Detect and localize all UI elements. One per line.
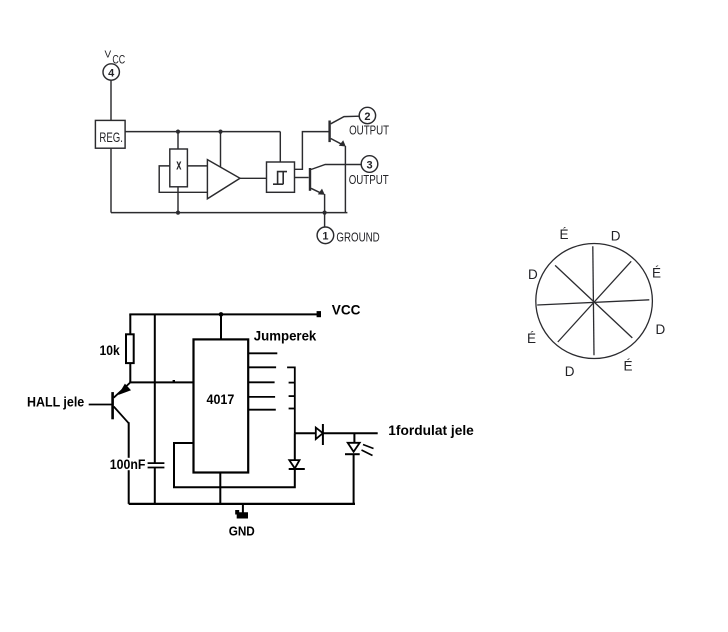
svg-text:4017: 4017 xyxy=(207,391,235,407)
junction xyxy=(176,130,180,134)
junction bump xyxy=(173,380,175,382)
svg-text:4: 4 xyxy=(108,68,115,80)
svg-text:GND: GND xyxy=(229,523,255,538)
junction xyxy=(218,130,222,134)
svg-text:VCC: VCC xyxy=(332,302,361,318)
wire REG down left side xyxy=(110,148,112,212)
op-amp U1 xyxy=(207,160,240,199)
svg-text:D: D xyxy=(656,322,666,337)
jumper tick 3 xyxy=(289,408,295,410)
wire jumper common down xyxy=(294,433,296,460)
pin out 2 xyxy=(248,366,276,368)
transistor Q3 lower (output 3) xyxy=(309,168,311,191)
pin out 4 xyxy=(248,396,275,398)
wire hall loop xyxy=(159,166,207,192)
VCC terminal square xyxy=(317,311,321,317)
svg-text:CC: CC xyxy=(112,55,125,67)
svg-text:D: D xyxy=(565,364,575,379)
schmitt hysteresis symbol xyxy=(273,172,287,185)
svg-text:GROUND: GROUND xyxy=(336,230,379,245)
svg-text:100nF: 100nF xyxy=(110,456,146,472)
labels of bottom circuit xyxy=(27,302,474,539)
wire op-amp output xyxy=(240,177,267,179)
wire LED cathode down xyxy=(353,454,355,504)
wire cap to ground rail xyxy=(154,468,156,504)
IC 4017 xyxy=(194,339,249,472)
magnet circle xyxy=(536,244,653,359)
wire 4017 top pin xyxy=(220,314,222,339)
jumper tick 1 xyxy=(289,382,295,384)
regulator REG xyxy=(95,120,125,148)
wire lower emitter to ground node xyxy=(324,194,326,227)
wire rail to op-amp top xyxy=(220,132,222,168)
pin out 5 xyxy=(248,409,276,411)
LED D3 xyxy=(348,443,360,452)
jumper tick 2 xyxy=(289,395,295,397)
svg-text:V: V xyxy=(105,49,112,60)
pin out 3 xyxy=(248,381,274,383)
ground rail xyxy=(129,503,355,505)
ground symbol xyxy=(242,504,244,514)
ground rail xyxy=(111,212,347,214)
wire schmitt to lower transistor base xyxy=(295,177,309,179)
svg-text:É: É xyxy=(527,331,536,346)
svg-text:x: x xyxy=(176,157,182,174)
transistor Q1 emitter xyxy=(114,383,130,398)
svg-text:D: D xyxy=(611,228,621,243)
diode D1 (series output) xyxy=(316,428,323,440)
svg-text:REG.: REG. xyxy=(99,129,123,145)
svg-text:D: D xyxy=(528,267,538,282)
wire rail to X box xyxy=(177,132,179,149)
transistor Q2 upper (output 2) xyxy=(328,121,330,143)
transistor Q1 base bar xyxy=(111,392,114,419)
wire VCC terminal to REG xyxy=(110,80,112,120)
wire rail to resistor xyxy=(129,314,131,334)
svg-text:OUTPUT: OUTPUT xyxy=(349,172,389,187)
diode D2 (reset) xyxy=(289,460,299,468)
wire VCC rail xyxy=(129,313,317,315)
spoke NE-SW xyxy=(558,261,631,342)
labels of top circuit xyxy=(99,49,389,244)
label 100nF xyxy=(109,458,147,470)
hall element X box xyxy=(170,149,188,187)
svg-text:HALL jele: HALL jele xyxy=(27,394,84,410)
wire jumper to diode xyxy=(295,432,316,434)
wire cap branch xyxy=(154,314,156,463)
node VCC pin 4 terminal xyxy=(103,64,119,80)
wire upper emitter down xyxy=(344,146,346,213)
junction ground node xyxy=(323,211,327,215)
svg-text:É: É xyxy=(652,266,661,281)
wire reset feedback xyxy=(174,443,295,487)
schmitt trigger box xyxy=(267,162,295,192)
junction xyxy=(219,312,224,317)
spoke horizontal xyxy=(537,300,649,305)
wire diode to output xyxy=(323,432,378,434)
svg-text:Jumperek: Jumperek xyxy=(254,327,317,343)
svg-text:2: 2 xyxy=(364,111,370,123)
pin out 1 xyxy=(248,352,277,354)
wire resistor to collector node xyxy=(129,363,131,382)
wire LED drop xyxy=(353,433,355,443)
resistor 10k xyxy=(126,334,134,363)
transistor Q1 collector xyxy=(114,407,129,424)
LED emission strokes xyxy=(363,445,374,449)
wire HALL input xyxy=(89,404,112,406)
terminal circle 2 xyxy=(359,107,375,123)
terminal circle 1 xyxy=(317,227,334,244)
wire REG right rail xyxy=(125,131,280,133)
svg-text:10k: 10k xyxy=(100,342,120,358)
svg-text:É: É xyxy=(560,227,569,242)
capacitor 100nF xyxy=(148,462,165,464)
spoke NW-SE xyxy=(555,265,632,338)
wire rail down to schmitt top xyxy=(279,132,281,162)
svg-text:OUTPUT: OUTPUT xyxy=(349,123,389,138)
svg-text:3: 3 xyxy=(366,159,372,171)
svg-text:É: É xyxy=(624,358,633,373)
spoke vertical xyxy=(593,246,594,355)
wire collector node to 4017 xyxy=(129,381,193,383)
junction xyxy=(176,211,180,215)
wire schmitt to upper transistor base xyxy=(295,132,329,170)
wire X box bottom to ground rail xyxy=(177,187,179,213)
svg-text:1: 1 xyxy=(322,231,328,243)
wire 4017 bottom pin xyxy=(219,473,221,504)
terminal circle 3 xyxy=(361,156,378,173)
svg-text:1fordulat jele: 1fordulat jele xyxy=(388,422,474,438)
wire collector down xyxy=(128,422,130,504)
jumper bracket xyxy=(287,367,295,433)
